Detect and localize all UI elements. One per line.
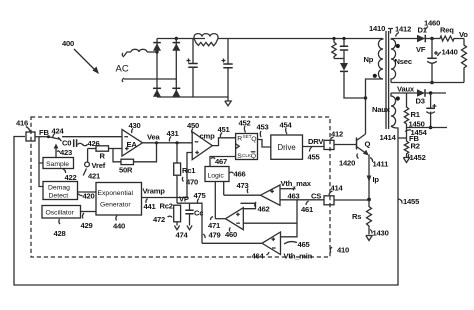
ground front-end bbox=[225, 97, 231, 106]
label 1460 bbox=[424, 19, 440, 33]
svg-text:Exponential: Exponential bbox=[98, 190, 134, 197]
transformer label 1412 bbox=[395, 25, 411, 37]
diode bridge bottom-left bbox=[153, 88, 161, 97]
svg-text:465: 465 bbox=[298, 240, 311, 249]
wire Np bottom to switch node bbox=[366, 79, 384, 134]
label 467 bbox=[211, 157, 227, 166]
svg-text:1411: 1411 bbox=[373, 160, 390, 169]
wire latch Q to Drive bbox=[258, 140, 271, 148]
wire fuse to bridge bbox=[147, 51, 157, 53]
snubber diode bbox=[340, 59, 367, 100]
node D3 cathode bbox=[429, 91, 433, 95]
box Sample 422 bbox=[43, 158, 74, 169]
pin FB 416 bbox=[26, 128, 49, 141]
feedback wire loop bbox=[14, 126, 398, 285]
svg-text:Q: Q bbox=[251, 136, 256, 143]
box Demag Detect 420 bbox=[43, 182, 78, 200]
svg-text:474: 474 bbox=[176, 231, 189, 240]
label 426 bbox=[78, 139, 100, 148]
transistor Q bbox=[357, 134, 371, 156]
node D1 cathode bbox=[430, 37, 434, 41]
wire Vaux node bbox=[391, 92, 417, 94]
svg-text:Logic: Logic bbox=[208, 173, 225, 180]
wire VP rail bbox=[177, 195, 202, 244]
svg-text:VP: VP bbox=[179, 195, 189, 204]
wire CS net bbox=[280, 199, 324, 201]
svg-text:464: 464 bbox=[252, 252, 265, 261]
comparator 462 bbox=[261, 185, 281, 205]
wire 462 output bbox=[224, 194, 261, 196]
label 454 bbox=[280, 121, 293, 135]
svg-text:429: 429 bbox=[81, 221, 93, 230]
wire logic input from comparator 462 bbox=[223, 182, 225, 196]
wire Vramp bbox=[142, 153, 193, 198]
Vdd capacitor bbox=[426, 93, 436, 128]
label 479 bbox=[203, 231, 221, 240]
capacitor bulk C1 bbox=[187, 39, 198, 97]
svg-text:1440: 1440 bbox=[442, 48, 458, 57]
node Vea Rc1 tap bbox=[175, 141, 178, 144]
wire demag to expgen bbox=[78, 191, 97, 193]
box Drive 454 bbox=[271, 135, 303, 159]
wire emitter bbox=[368, 155, 370, 200]
resistor Req bbox=[425, 26, 464, 42]
sample control arrow 423 bbox=[54, 144, 72, 158]
svg-text:Ip: Ip bbox=[373, 175, 380, 184]
wire CS pin to emitter node bbox=[334, 199, 369, 201]
svg-text:426: 426 bbox=[88, 139, 100, 148]
svg-text:1455: 1455 bbox=[403, 197, 420, 206]
label 460 bbox=[225, 228, 237, 240]
wire R1 bottom rail bbox=[407, 127, 448, 129]
svg-text:410: 410 bbox=[337, 246, 349, 255]
bridge left branch wire bbox=[156, 39, 158, 98]
label 473 bbox=[237, 181, 249, 193]
label 430 bbox=[129, 121, 141, 133]
diode bridge top-left bbox=[153, 43, 161, 51]
svg-text:463: 463 bbox=[288, 192, 300, 201]
label 422 bbox=[63, 169, 77, 182]
resistor Rs bbox=[352, 200, 372, 235]
transformer label 1410 bbox=[369, 24, 393, 34]
svg-text:1414: 1414 bbox=[380, 133, 397, 142]
svg-text:Drive: Drive bbox=[278, 143, 296, 152]
diode D1 bbox=[416, 26, 428, 55]
svg-text:Vaux: Vaux bbox=[397, 85, 415, 94]
Vref terminal bbox=[85, 161, 106, 170]
resistor R bbox=[88, 146, 122, 161]
label 466 bbox=[230, 170, 246, 179]
fuse squiggle on AC line bbox=[131, 49, 147, 52]
svg-text:Vramp: Vramp bbox=[143, 187, 166, 196]
label 450 bbox=[187, 121, 199, 133]
box Oscillator 428 bbox=[42, 206, 81, 219]
diode D3 bbox=[416, 89, 426, 105]
bridge right branch wire bbox=[175, 39, 177, 98]
ground Rs bbox=[366, 236, 372, 241]
label 453 bbox=[257, 123, 269, 138]
label 420 bbox=[78, 192, 95, 201]
feedback resistor 50R bbox=[113, 141, 158, 174]
svg-text:Vea: Vea bbox=[147, 133, 160, 142]
switch 421 bbox=[83, 169, 101, 181]
label 1450 bbox=[409, 120, 425, 129]
svg-text:423: 423 bbox=[60, 148, 72, 157]
label 1452 bbox=[408, 153, 425, 162]
label 429 bbox=[81, 213, 93, 230]
svg-text:R1: R1 bbox=[411, 110, 421, 119]
resistor Rc2 472 bbox=[160, 202, 181, 226]
wire Vea bbox=[143, 142, 193, 144]
output capacitor 1440 bbox=[427, 39, 457, 83]
label 428 bbox=[54, 219, 66, 238]
controller IC dashed box 410 bbox=[31, 117, 330, 257]
svg-text:DRV: DRV bbox=[308, 137, 324, 146]
wire switch to EA inverting input bbox=[62, 136, 122, 138]
label 431 bbox=[167, 129, 180, 142]
comparator cmp 450 bbox=[192, 132, 215, 160]
capacitor bulk C2 bbox=[222, 39, 233, 98]
svg-text:Rc2: Rc2 bbox=[160, 202, 173, 211]
capacitor C0 bbox=[62, 139, 77, 148]
svg-text:AC: AC bbox=[116, 64, 129, 75]
svg-text:Sample: Sample bbox=[46, 161, 69, 168]
terminal arrow Cc bbox=[187, 226, 192, 230]
wire 460 minus input bbox=[243, 222, 297, 224]
label 472 bbox=[153, 215, 172, 224]
wire AC bottom to bridge right tap bbox=[124, 78, 176, 79]
filter damping resistor bbox=[194, 39, 218, 46]
label 463 bbox=[288, 187, 300, 201]
wire osc to expgen bbox=[81, 211, 97, 213]
label 1420 bbox=[339, 154, 359, 168]
label 1455 bbox=[399, 197, 421, 206]
svg-text:400: 400 bbox=[62, 39, 74, 48]
wire Drive to DRV pin bbox=[303, 146, 325, 148]
svg-text:Demag: Demag bbox=[48, 185, 70, 192]
svg-text:Q: Q bbox=[365, 140, 371, 149]
label 465 bbox=[284, 240, 311, 249]
svg-text:1412: 1412 bbox=[395, 25, 411, 34]
wire CS branch down bbox=[281, 200, 297, 237]
terminal arrow Rc2 bbox=[174, 226, 179, 230]
label 424 bbox=[52, 127, 65, 138]
label 470 bbox=[182, 177, 198, 187]
svg-text:472: 472 bbox=[153, 215, 165, 224]
AC source bbox=[116, 53, 129, 82]
svg-text:D3: D3 bbox=[416, 97, 425, 106]
svg-text:Q: Q bbox=[251, 153, 256, 160]
svg-text:430: 430 bbox=[129, 121, 141, 130]
svg-text:451: 451 bbox=[218, 125, 231, 134]
resistor Rc1 470 bbox=[174, 143, 197, 203]
label 462 bbox=[255, 202, 270, 214]
label 1454 bbox=[405, 128, 428, 137]
diode bridge top-right bbox=[172, 43, 180, 51]
svg-text:Cc: Cc bbox=[194, 209, 203, 218]
svg-text:Vth_max: Vth_max bbox=[281, 179, 312, 188]
wire D3 cathode bbox=[425, 92, 446, 94]
current Ip arrow bbox=[367, 175, 380, 184]
comparator 460 bbox=[226, 208, 244, 230]
label 471 bbox=[208, 217, 221, 231]
capacitor Cc bbox=[185, 203, 203, 225]
comparator 464 bbox=[262, 232, 281, 255]
label 1430 bbox=[370, 229, 389, 238]
svg-text:453: 453 bbox=[257, 123, 269, 132]
ground R2 bbox=[403, 158, 409, 163]
node Vref branch bbox=[87, 149, 89, 163]
node AC left tap bbox=[155, 50, 158, 53]
label 412 bbox=[330, 130, 343, 141]
label 1411 bbox=[370, 158, 389, 169]
secondary winding Nsec bbox=[391, 39, 412, 83]
label 452 bbox=[239, 119, 251, 133]
svg-text:475: 475 bbox=[194, 191, 207, 200]
svg-text:422: 422 bbox=[65, 173, 77, 182]
wire 460 output bbox=[215, 218, 225, 220]
node emitter CS bbox=[367, 198, 371, 202]
svg-text:455: 455 bbox=[308, 153, 321, 162]
resistor R2 bbox=[404, 138, 420, 157]
svg-text:467: 467 bbox=[215, 157, 227, 166]
node FB divider bbox=[398, 134, 419, 143]
wire logic input from comparator 460 bbox=[214, 182, 216, 219]
transformer core bbox=[386, 31, 389, 129]
svg-text:470: 470 bbox=[186, 178, 198, 187]
wire secondary bottom rail bbox=[391, 82, 464, 84]
figure reference 400 bbox=[62, 39, 99, 74]
wire bottom rail bbox=[157, 96, 228, 98]
svg-text:C0: C0 bbox=[62, 139, 71, 148]
label 416 bbox=[16, 119, 30, 132]
wire AC top to bridge left tap bbox=[124, 52, 131, 56]
primary winding Np bbox=[364, 39, 384, 80]
wire cmp output to latch R bbox=[212, 138, 235, 146]
label 455 bbox=[308, 147, 321, 162]
latch 452 bbox=[236, 134, 258, 161]
svg-text:Req: Req bbox=[440, 26, 454, 35]
svg-text:440: 440 bbox=[113, 222, 125, 231]
svg-text:Vref: Vref bbox=[92, 161, 106, 170]
auxiliary winding Naux bbox=[372, 93, 400, 126]
svg-text:Nsec: Nsec bbox=[395, 57, 412, 66]
wire 464 output bbox=[202, 242, 262, 244]
node Vdd cap bottom bbox=[429, 126, 433, 130]
svg-text:421: 421 bbox=[88, 172, 101, 181]
svg-text:Detect: Detect bbox=[49, 193, 69, 200]
pin CS 414 bbox=[324, 196, 334, 205]
op-amp EA 430 bbox=[122, 130, 143, 157]
svg-text:462: 462 bbox=[258, 205, 270, 214]
svg-text:1460: 1460 bbox=[424, 19, 440, 28]
svg-text:Generator: Generator bbox=[100, 202, 131, 209]
svg-text:431: 431 bbox=[167, 129, 180, 138]
load resistor bbox=[462, 39, 467, 83]
svg-text:Vo: Vo bbox=[459, 30, 468, 39]
svg-text:420: 420 bbox=[83, 192, 95, 201]
svg-text:50R: 50R bbox=[119, 166, 133, 175]
svg-text:Oscillator: Oscillator bbox=[46, 210, 75, 217]
label 414 bbox=[329, 184, 344, 196]
svg-text:1452: 1452 bbox=[410, 153, 426, 162]
label 461 bbox=[301, 201, 314, 214]
svg-text:1420: 1420 bbox=[339, 159, 355, 168]
node output cap bottom bbox=[430, 81, 434, 85]
svg-text:479: 479 bbox=[209, 231, 221, 240]
resistor R1 bbox=[404, 93, 420, 138]
svg-text:VF: VF bbox=[416, 45, 426, 54]
svg-text:471: 471 bbox=[208, 221, 221, 230]
label 464 bbox=[252, 252, 270, 261]
label 451 bbox=[218, 125, 231, 137]
wire FB pin branch to demag bbox=[39, 137, 43, 187]
wire rectified top rail bbox=[157, 38, 205, 40]
svg-text:R2: R2 bbox=[411, 142, 420, 151]
snubber resistor bbox=[332, 37, 336, 59]
wire Nsec top to D1 bbox=[391, 38, 417, 40]
svg-text:461: 461 bbox=[301, 205, 314, 214]
svg-text:460: 460 bbox=[225, 230, 237, 239]
wire Logic to latch S bbox=[210, 157, 236, 167]
svg-text:Rs: Rs bbox=[352, 212, 361, 221]
svg-text:EA: EA bbox=[127, 140, 138, 149]
node bridge top rail junction bbox=[175, 37, 178, 40]
label 440 bbox=[113, 216, 125, 231]
svg-text:428: 428 bbox=[54, 229, 66, 238]
sample switch 424 bbox=[35, 135, 62, 141]
svg-text:Rc1: Rc1 bbox=[182, 166, 196, 175]
snubber capacitor bbox=[334, 37, 348, 59]
svg-text:1410: 1410 bbox=[369, 24, 385, 33]
svg-text:CS: CS bbox=[311, 192, 321, 201]
svg-text:Vth_min: Vth_min bbox=[284, 252, 313, 261]
label 410 bbox=[330, 246, 349, 255]
svg-text:466: 466 bbox=[234, 170, 246, 179]
svg-text:441: 441 bbox=[144, 202, 157, 211]
pin DRV 412 bbox=[324, 140, 334, 149]
svg-text:Naux: Naux bbox=[372, 105, 391, 114]
svg-text:473: 473 bbox=[237, 181, 249, 190]
box Logic 466 bbox=[205, 167, 229, 182]
wire rail to transformer bbox=[218, 38, 383, 40]
label 475 bbox=[194, 191, 207, 203]
filter inductor bbox=[194, 34, 218, 39]
svg-text:cmp: cmp bbox=[200, 132, 216, 141]
svg-text:1430: 1430 bbox=[373, 229, 389, 238]
box Exponential Generator 440 bbox=[96, 183, 142, 216]
wire Vth_max input bbox=[280, 179, 312, 189]
svg-text:R: R bbox=[100, 152, 106, 161]
svg-text:Np: Np bbox=[364, 55, 374, 64]
svg-text:R: R bbox=[237, 136, 242, 143]
wire 460 plus input stub bbox=[241, 203, 256, 208]
label 441 bbox=[144, 199, 157, 212]
wire DRV to base bbox=[334, 144, 357, 146]
diode bridge bottom-right bbox=[172, 88, 180, 97]
